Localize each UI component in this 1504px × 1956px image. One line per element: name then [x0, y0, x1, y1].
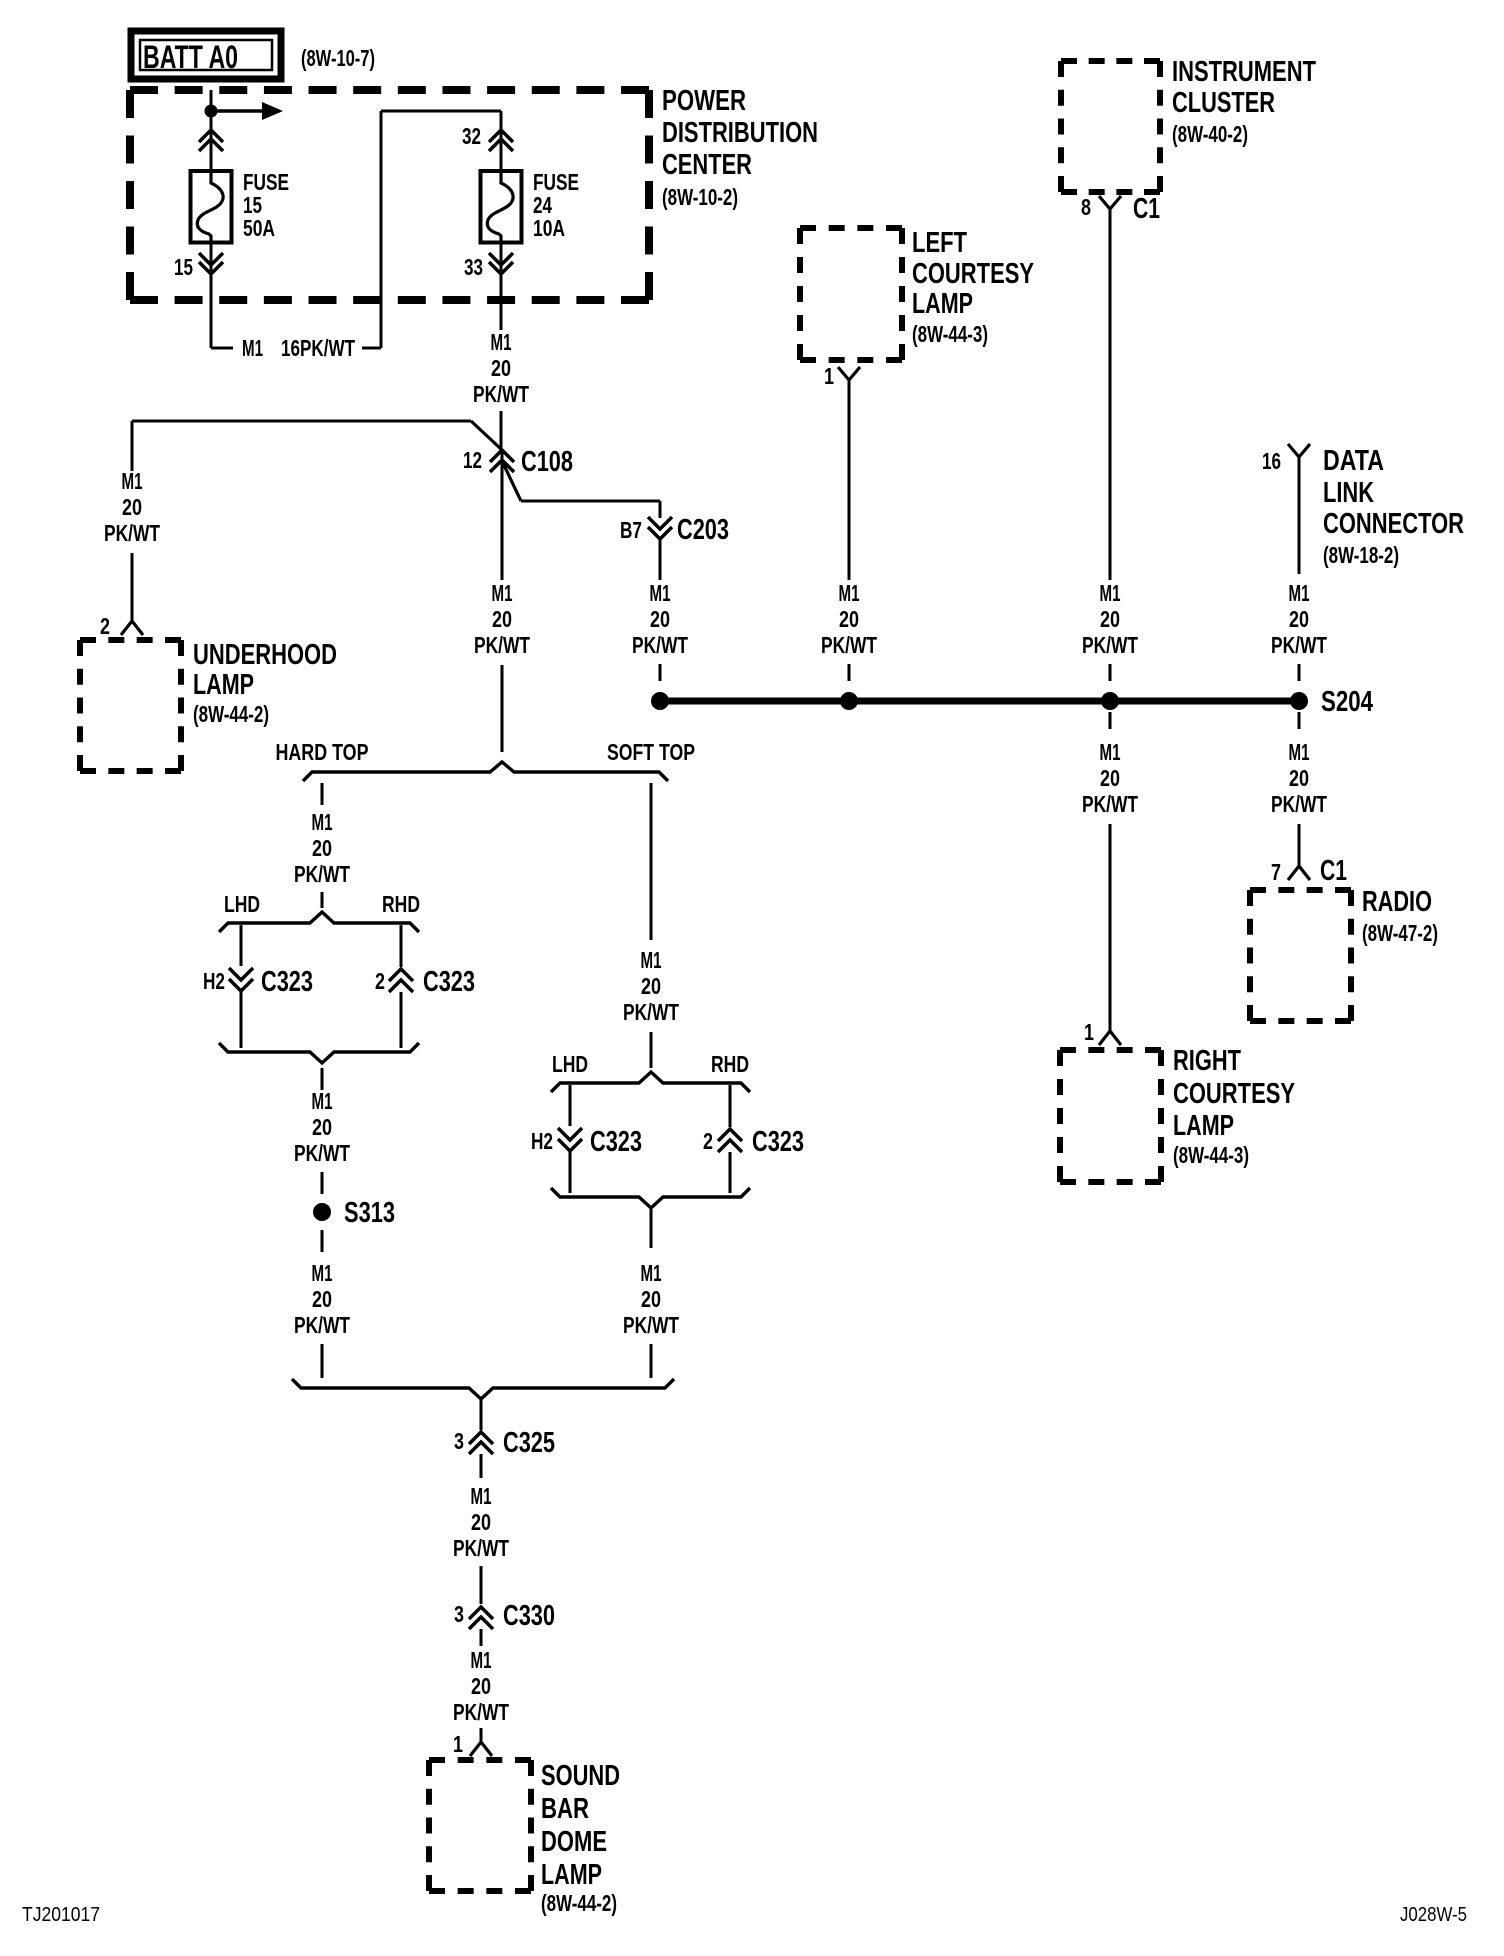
- splice bus wire: [660, 698, 1299, 705]
- wire: soft top LHD below C323: [569, 1151, 572, 1193]
- svg-text:M1: M1: [839, 580, 860, 606]
- svg-text:(8W-44-2): (8W-44-2): [541, 1890, 617, 1916]
- svg-text:CONNECTOR: CONNECTOR: [1323, 508, 1464, 540]
- svg-text:20: 20: [312, 1286, 332, 1312]
- svg-text:2: 2: [100, 613, 110, 639]
- svg-text:H2: H2: [203, 968, 225, 994]
- pin label 2 (soft top): [703, 1128, 713, 1154]
- wire label M1 20 PK/WT (C330 out): [453, 1647, 509, 1725]
- wire stub below bus (right courtesy branch): [1109, 712, 1112, 729]
- connector C323 pin 2 chevrons (soft top RHD): [718, 1129, 742, 1152]
- wire: main feed to top split brace: [501, 665, 504, 752]
- pin label H2 (hard top): [203, 968, 225, 994]
- svg-text:32: 32: [462, 123, 481, 149]
- wire: branch to underhood lamp (horizontal): [132, 421, 502, 450]
- underhood lamp box: [80, 640, 181, 771]
- pin 33 connector chevrons: [489, 253, 513, 274]
- pin label 12: [463, 447, 482, 473]
- pin label B7: [620, 517, 642, 543]
- connector C325 pin 3 chevrons: [469, 1432, 493, 1454]
- svg-text:S313: S313: [344, 1197, 395, 1229]
- split brace LHD/RHD soft top: [551, 1072, 750, 1092]
- svg-text:SOFT TOP: SOFT TOP: [607, 739, 695, 765]
- wire: hard top LHD below C323: [240, 991, 243, 1048]
- wire: underhood lamp branch vertical: [131, 421, 134, 471]
- battery feed box BATT A0: [131, 31, 281, 79]
- svg-text:C330: C330: [503, 1600, 555, 1632]
- pin label 3 (C325): [454, 1428, 464, 1454]
- svg-text:C323: C323: [423, 966, 475, 998]
- svg-text:1: 1: [1084, 1019, 1094, 1045]
- svg-text:C203: C203: [677, 514, 729, 546]
- svg-text:LHD: LHD: [224, 891, 260, 917]
- svg-text:SOUND: SOUND: [541, 1760, 620, 1792]
- svg-text:12: 12: [463, 447, 482, 473]
- instrument cluster box: [1061, 61, 1160, 192]
- svg-text:RHD: RHD: [711, 1051, 749, 1077]
- wire: data link connector to S204: [1298, 456, 1301, 574]
- wire label M1 20 PK/WT (C203 branch): [632, 580, 688, 658]
- wire label M1 20 PK/WT (right courtesy branch): [1082, 739, 1138, 817]
- svg-text:20: 20: [471, 1509, 491, 1535]
- label POWER DISTRIBUTION CENTER: [662, 85, 818, 210]
- net label M1 16PK/WT: [242, 335, 355, 361]
- svg-text:2: 2: [703, 1128, 713, 1154]
- svg-text:PK/WT: PK/WT: [453, 1535, 509, 1561]
- svg-text:20: 20: [1289, 765, 1309, 791]
- svg-text:PK/WT: PK/WT: [1082, 632, 1138, 658]
- wire label M1 20 PK/WT (left courtesy branch): [821, 580, 877, 658]
- wire label M1 20 PK/WT (soft top merge): [623, 1260, 679, 1338]
- connector pin 2 at underhood lamp: [121, 621, 143, 635]
- svg-text:PK/WT: PK/WT: [623, 1312, 679, 1338]
- svg-text:20: 20: [491, 355, 511, 381]
- connector pin 16 at data link connector: [1288, 444, 1310, 457]
- wire: soft top LHD to C323: [569, 1085, 572, 1126]
- svg-text:PK/WT: PK/WT: [473, 381, 529, 407]
- wire stub below S313: [321, 1230, 324, 1252]
- wire label M1 20 PK/WT (underhood branch): [104, 468, 160, 546]
- label S313: [344, 1197, 395, 1229]
- svg-text:3: 3: [454, 1601, 464, 1627]
- svg-text:C323: C323: [590, 1126, 642, 1158]
- wire: splice up-link to fuse 24 pin 32: [381, 111, 501, 348]
- svg-text:16: 16: [1262, 448, 1281, 474]
- wire stub below merge (soft top): [650, 1208, 653, 1248]
- wire: hard top RHD below C323: [400, 992, 403, 1048]
- connector pin 1 at right courtesy lamp: [1099, 1031, 1121, 1045]
- wire label M1 20 PK/WT (below S313): [294, 1260, 350, 1338]
- wire: hard top RHD to C323: [400, 925, 403, 967]
- svg-text:C1: C1: [1320, 855, 1347, 887]
- sound bar dome lamp box: [429, 1760, 531, 1891]
- right courtesy lamp box: [1060, 1050, 1161, 1182]
- svg-text:8: 8: [1081, 194, 1091, 220]
- label C323 (soft top RHD): [752, 1126, 804, 1158]
- merge brace soft top LHD/RHD: [551, 1188, 750, 1208]
- label C1 (radio): [1320, 855, 1347, 887]
- pin label 1 (right courtesy lamp): [1084, 1019, 1094, 1045]
- svg-text:PK/WT: PK/WT: [294, 1140, 350, 1166]
- pin label 8: [1081, 194, 1091, 220]
- svg-text:S204: S204: [1321, 686, 1373, 718]
- svg-text:(8W-40-2): (8W-40-2): [1172, 121, 1248, 147]
- svg-text:20: 20: [1289, 606, 1309, 632]
- svg-text:HARD TOP: HARD TOP: [276, 739, 369, 765]
- wire: C108 down: [501, 452, 504, 580]
- node: C203 branch junction: [651, 692, 669, 710]
- node: battery feed junction: [205, 105, 218, 118]
- connector C330 pin 3 chevrons: [469, 1607, 493, 1629]
- svg-text:1: 1: [824, 363, 834, 389]
- svg-text:M1: M1: [650, 580, 671, 606]
- svg-text:DISTRIBUTION: DISTRIBUTION: [662, 117, 818, 149]
- wire label M1 20 PK/WT (radio branch): [1271, 739, 1327, 817]
- svg-text:20: 20: [122, 494, 142, 520]
- svg-text:RADIO: RADIO: [1362, 886, 1432, 918]
- svg-text:33: 33: [464, 254, 483, 280]
- svg-text:UNDERHOOD: UNDERHOOD: [193, 639, 337, 671]
- svg-text:PK/WT: PK/WT: [294, 861, 350, 887]
- svg-text:COURTESY: COURTESY: [1173, 1078, 1295, 1110]
- wire: left courtesy lamp to bus: [848, 379, 851, 580]
- wire stub above LHD/RHD split (soft top): [650, 1032, 653, 1068]
- svg-text:PK/WT: PK/WT: [632, 632, 688, 658]
- footer sheet code TJ201017: [22, 1904, 100, 1926]
- radio box: [1250, 890, 1351, 1021]
- wire label M1 20 PK/WT (hard top): [294, 809, 350, 887]
- wire: soft top into merge brace: [650, 1344, 653, 1378]
- pin label 3 (C330): [454, 1601, 464, 1627]
- label C108: [521, 446, 573, 478]
- pin 15 connector chevrons: [199, 253, 223, 274]
- pin 32 connector chevrons: [489, 130, 513, 151]
- wire stub above S313: [321, 1172, 324, 1194]
- svg-text:COURTESY: COURTESY: [912, 258, 1034, 290]
- label RHD (soft top): [711, 1051, 749, 1077]
- svg-text:20: 20: [650, 606, 670, 632]
- wire: C108 branch to C203: [502, 461, 660, 518]
- pin label 16: [1262, 448, 1281, 474]
- wire: C330 down: [480, 1629, 483, 1646]
- svg-text:16PK/WT: 16PK/WT: [281, 335, 355, 361]
- label C325: [503, 1427, 555, 1459]
- fuse 15 50A: [191, 171, 232, 243]
- svg-text:10A: 10A: [533, 215, 565, 241]
- label RADIO (8W-47-2): [1362, 886, 1438, 946]
- label C323 (soft top LHD): [590, 1126, 642, 1158]
- svg-text:20: 20: [312, 835, 332, 861]
- svg-text:(8W-44-2): (8W-44-2): [193, 701, 269, 727]
- wire: pin 33 down to C108: [500, 242, 503, 452]
- svg-text:PK/WT: PK/WT: [294, 1312, 350, 1338]
- svg-text:M1: M1: [641, 947, 662, 973]
- svg-text:LAMP: LAMP: [912, 288, 973, 320]
- wire label M1 20 PK/WT (DLC branch): [1271, 580, 1327, 658]
- label C203: [677, 514, 729, 546]
- svg-text:(8W-10-2): (8W-10-2): [662, 184, 738, 210]
- wire stub above bus node (C203 branch): [659, 664, 662, 681]
- svg-text:20: 20: [312, 1114, 332, 1140]
- label LHD (hard top): [224, 891, 260, 917]
- wire label M1 20 PK/WT (main down-feed): [474, 580, 530, 658]
- svg-text:POWER: POWER: [662, 85, 746, 117]
- reference (8W-10-7): [301, 45, 375, 71]
- pin label 2: [100, 613, 110, 639]
- pin label 33: [464, 254, 483, 280]
- svg-text:PK/WT: PK/WT: [453, 1699, 509, 1725]
- wire: soft top RHD to C323: [729, 1085, 732, 1127]
- wire stub above bus node (cluster): [1109, 664, 1112, 681]
- merge brace hard top / soft top: [292, 1379, 674, 1399]
- fuse 24 10A: [481, 171, 522, 243]
- svg-text:LINK: LINK: [1323, 477, 1374, 509]
- label C323 (hard top RHD): [423, 966, 475, 998]
- connector C323 pin H2 chevrons (hard top LHD): [229, 968, 253, 991]
- pin label H2 (soft top): [531, 1128, 553, 1154]
- svg-text:20: 20: [1100, 765, 1120, 791]
- wire: to underhood lamp pin 2: [131, 553, 134, 621]
- svg-text:BAR: BAR: [541, 1793, 589, 1825]
- wire stub above splice S204: [1298, 664, 1301, 681]
- node S204: [1290, 692, 1308, 710]
- svg-text:PK/WT: PK/WT: [104, 520, 160, 546]
- wire label M1 20 PK/WT (soft top): [623, 947, 679, 1025]
- split brace LHD/RHD hard top: [219, 912, 419, 932]
- svg-text:LEFT: LEFT: [912, 227, 967, 259]
- svg-text:M1: M1: [471, 1647, 492, 1673]
- svg-text:M1: M1: [312, 1260, 333, 1286]
- label C323 (hard top LHD): [261, 966, 313, 998]
- wire: down to right courtesy lamp: [1109, 824, 1112, 1031]
- wire: down to radio: [1298, 824, 1301, 866]
- wire stub above LHD/RHD split (hard top): [321, 892, 324, 908]
- wire: C203 to splice bus: [659, 540, 662, 580]
- wire: fuse 15 to pin 15: [210, 242, 213, 348]
- wire: instrument cluster to bus: [1109, 208, 1112, 580]
- pin label 7: [1271, 859, 1281, 885]
- label UNDERHOOD LAMP (8W-44-2): [193, 639, 337, 727]
- power distribution center box: [130, 90, 649, 300]
- svg-text:20: 20: [641, 973, 661, 999]
- wire: soft top RHD below C323: [729, 1152, 732, 1193]
- svg-text:20: 20: [492, 606, 512, 632]
- svg-text:15: 15: [174, 254, 193, 280]
- wire stub: fuse 15 splice left: [211, 347, 233, 350]
- label SOUND BAR DOME LAMP (8W-44-2): [541, 1760, 620, 1916]
- svg-text:INSTRUMENT: INSTRUMENT: [1172, 56, 1316, 88]
- svg-text:DOME: DOME: [541, 1826, 607, 1858]
- svg-text:20: 20: [839, 606, 859, 632]
- svg-text:C323: C323: [261, 966, 313, 998]
- label S204: [1321, 686, 1373, 718]
- svg-text:7: 7: [1271, 859, 1281, 885]
- svg-text:M1: M1: [122, 468, 143, 494]
- svg-text:PK/WT: PK/WT: [1271, 791, 1327, 817]
- label RIGHT COURTESY LAMP (8W-44-3): [1173, 1045, 1295, 1168]
- wire: merge to C325: [480, 1399, 483, 1430]
- svg-text:M1: M1: [1289, 580, 1310, 606]
- svg-text:3: 3: [454, 1428, 464, 1454]
- node: left courtesy junction: [840, 692, 858, 710]
- footer sheet code J028W-5: [1400, 1904, 1467, 1926]
- svg-text:(8W-47-2): (8W-47-2): [1362, 920, 1438, 946]
- svg-text:C325: C325: [503, 1427, 555, 1459]
- connector chevrons above fuse 15: [199, 130, 223, 151]
- svg-text:C323: C323: [752, 1126, 804, 1158]
- svg-text:M1: M1: [471, 1483, 492, 1509]
- svg-text:M1: M1: [491, 329, 512, 355]
- wire label M1 20 PK/WT (C325 out): [453, 1483, 509, 1561]
- label FUSE 24 10A: [533, 169, 579, 241]
- label SOFT TOP: [607, 739, 695, 765]
- connector C108 chevrons pin 12: [490, 450, 514, 472]
- connector C203 chevrons pin B7: [648, 517, 672, 539]
- node: cluster junction: [1101, 692, 1119, 710]
- svg-text:(8W-10-7): (8W-10-7): [301, 45, 375, 71]
- label C330: [503, 1600, 555, 1632]
- svg-text:2: 2: [375, 968, 385, 994]
- svg-text:M1: M1: [1289, 739, 1310, 765]
- split brace hard top / soft top: [303, 762, 668, 781]
- wire: hard top LHD to C323: [240, 925, 243, 966]
- pin label 32: [462, 123, 481, 149]
- label LHD (soft top): [552, 1051, 588, 1077]
- connector C323 pin 2 chevrons (hard top RHD): [389, 969, 413, 992]
- pin label 2 (hard top): [375, 968, 385, 994]
- wire stub below merge (hard top): [321, 1068, 324, 1090]
- connector C1 pin 8 at instrument cluster: [1099, 196, 1121, 209]
- svg-text:LAMP: LAMP: [541, 1859, 602, 1891]
- svg-text:B7: B7: [620, 517, 642, 543]
- wire: hard top into merge brace: [321, 1344, 324, 1378]
- svg-text:DATA: DATA: [1323, 445, 1384, 477]
- svg-text:RIGHT: RIGHT: [1173, 1045, 1241, 1077]
- wire stub: splice right: [362, 347, 381, 350]
- svg-text:CLUSTER: CLUSTER: [1172, 87, 1275, 119]
- left courtesy lamp box: [800, 228, 902, 360]
- wire: C325 down: [480, 1454, 483, 1478]
- svg-text:J028W-5: J028W-5: [1400, 1904, 1467, 1926]
- svg-text:LHD: LHD: [552, 1051, 588, 1077]
- connector pin 1 at left courtesy lamp: [838, 367, 860, 380]
- svg-text:PK/WT: PK/WT: [474, 632, 530, 658]
- label C1 (instrument cluster): [1133, 193, 1160, 225]
- svg-text:20: 20: [1100, 606, 1120, 632]
- wire label M1 20 PK/WT (cluster branch): [1082, 580, 1138, 658]
- merge brace hard top LHD/RHD: [219, 1043, 419, 1063]
- svg-text:M1: M1: [492, 580, 513, 606]
- connector C1 pin 7 at radio: [1288, 866, 1310, 880]
- svg-text:20: 20: [641, 1286, 661, 1312]
- svg-text:(8W-44-3): (8W-44-3): [912, 321, 988, 347]
- svg-text:PK/WT: PK/WT: [1082, 791, 1138, 817]
- pin label 1 (sound bar dome lamp): [453, 1731, 463, 1757]
- wire: BATT A0 feed into PDC: [210, 90, 213, 171]
- svg-text:50A: 50A: [243, 215, 275, 241]
- svg-text:BATT A0: BATT A0: [143, 39, 238, 75]
- svg-text:H2: H2: [531, 1128, 553, 1154]
- wire: soft top down: [650, 783, 653, 940]
- svg-text:PK/WT: PK/WT: [1271, 632, 1327, 658]
- label INSTRUMENT CLUSTER (8W-40-2): [1172, 56, 1316, 147]
- svg-text:CENTER: CENTER: [662, 149, 752, 181]
- wire: to sound bar dome lamp pin 1: [480, 1728, 483, 1742]
- svg-text:1: 1: [453, 1731, 463, 1757]
- label LEFT COURTESY LAMP (8W-44-3): [912, 227, 1034, 347]
- wire: to C330: [480, 1566, 483, 1604]
- wire label M1 20 PK/WT (hard top merge): [294, 1088, 350, 1166]
- svg-text:20: 20: [471, 1673, 491, 1699]
- svg-text:M1: M1: [1100, 739, 1121, 765]
- svg-text:(8W-18-2): (8W-18-2): [1323, 542, 1399, 568]
- svg-text:C1: C1: [1133, 193, 1160, 225]
- svg-text:LAMP: LAMP: [1173, 1110, 1234, 1142]
- svg-text:PK/WT: PK/WT: [623, 999, 679, 1025]
- svg-text:M1: M1: [1100, 580, 1121, 606]
- connector pin 1 at sound bar dome lamp: [470, 1742, 492, 1756]
- pin label 1 (left courtesy lamp): [824, 363, 834, 389]
- wire stub above bus node (left courtesy): [848, 664, 851, 681]
- svg-text:M1: M1: [242, 335, 263, 361]
- svg-text:M1: M1: [641, 1260, 662, 1286]
- wire stub below split (hard top): [321, 783, 324, 805]
- node S313: [313, 1203, 331, 1221]
- svg-text:C108: C108: [521, 446, 573, 478]
- svg-text:RHD: RHD: [382, 891, 420, 917]
- pin label 15: [174, 254, 193, 280]
- svg-text:(8W-44-3): (8W-44-3): [1173, 1142, 1249, 1168]
- svg-text:TJ201017: TJ201017: [22, 1904, 100, 1926]
- svg-text:PK/WT: PK/WT: [821, 632, 877, 658]
- label RHD (hard top): [382, 891, 420, 917]
- wire stub below S204 (radio branch): [1298, 712, 1301, 729]
- svg-text:M1: M1: [312, 1088, 333, 1114]
- svg-text:LAMP: LAMP: [193, 669, 254, 701]
- label DATA LINK CONNECTOR (8W-18-2): [1323, 445, 1464, 568]
- svg-text:M1: M1: [312, 809, 333, 835]
- connector C323 pin H2 chevrons (soft top LHD): [558, 1128, 582, 1151]
- label FUSE 15 50A: [243, 169, 289, 241]
- arrow: feed to other circuits: [211, 102, 283, 120]
- label HARD TOP: [276, 739, 369, 765]
- wire label M1 20 PK/WT (fuse 24 output): [473, 329, 529, 407]
